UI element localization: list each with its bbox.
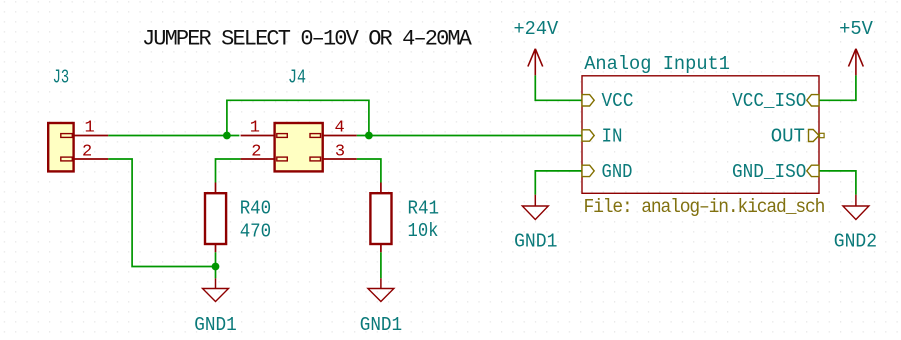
svg-text:2: 2 [82,143,92,162]
connector J3 [48,123,108,171]
wire R41 bottom to gnd [380,252,382,278]
sheet pin OUT [809,130,820,142]
wire J4 pin4 to sheet IN [357,135,582,137]
svg-text:IN: IN [602,125,623,147]
wire sheet GND_ISO down to GND2 [819,171,856,195]
resistor R40 [205,183,226,253]
sheet pin VCC [582,95,594,106]
svg-text:JUMPER SELECT 0–10V OR 4–20MA: JUMPER SELECT 0–10V OR 4–20MA [142,27,473,52]
wire loop J4 pin1 over to pin4 [227,100,369,135]
wire +5V to sheet VCC_ISO [819,75,856,100]
wire J4 pin3 to R41 top [357,159,381,183]
svg-text:GND2: GND2 [834,231,877,253]
wire J4 pin2 to R40 top [216,159,241,183]
ground symbol GND1 at sheet [522,195,548,220]
svg-text:Analog Input1: Analog Input1 [584,53,730,75]
hierarchical sheet U1 Analog Input1 [582,76,819,194]
svg-text:R41: R41 [408,197,440,219]
svg-text:470: 470 [240,220,272,242]
svg-text:VCC: VCC [602,90,634,112]
sheet pin GND_ISO [807,165,819,176]
wire J3 pin1 to J4 pin1 [108,135,239,137]
junction node J4 pin4 [365,132,373,140]
resistor R41 [370,183,391,253]
sheet pin IN [582,130,594,141]
svg-text:2: 2 [251,143,261,162]
sheet pin GND [582,165,594,176]
junction node J4 pin1 [223,132,231,140]
svg-text:3: 3 [335,143,345,162]
wire R40 bottom to gnd node [215,252,217,278]
wire J3 pin2 down to gnd node [108,159,215,267]
junction node R40 gnd [212,263,220,271]
svg-text:OUT: OUT [771,125,805,147]
svg-text:R40: R40 [240,197,272,219]
power symbol +5V [849,49,864,76]
sheet pin VCC_ISO [807,95,819,106]
svg-text:GND: GND [602,161,633,183]
power symbol +24V [528,49,543,76]
svg-text:GND1: GND1 [514,231,557,253]
svg-text:+24V: +24V [514,18,559,40]
svg-text:+5V: +5V [839,18,873,40]
wire +24V to sheet VCC [535,75,582,100]
svg-text:1: 1 [250,119,260,138]
svg-text:File: analog–in.kicad_sch: File: analog–in.kicad_sch [584,196,825,218]
svg-text:4: 4 [335,119,345,138]
wire sheet GND down to GND1 [535,171,582,195]
svg-text:J3: J3 [53,67,70,89]
svg-text:1: 1 [85,119,95,138]
ground symbol under R41 [368,278,394,301]
svg-text:10k: 10k [408,220,439,242]
svg-text:J4: J4 [288,67,306,89]
svg-text:GND_ISO: GND_ISO [732,161,806,183]
ground symbol GND2 [843,195,869,220]
jumper J4 [241,123,357,171]
svg-text:VCC_ISO: VCC_ISO [732,90,806,112]
svg-text:GND1: GND1 [360,314,403,336]
unconnected marker on OUT [820,133,825,137]
ground symbol under R40 [203,278,229,301]
svg-text:GND1: GND1 [194,314,237,336]
